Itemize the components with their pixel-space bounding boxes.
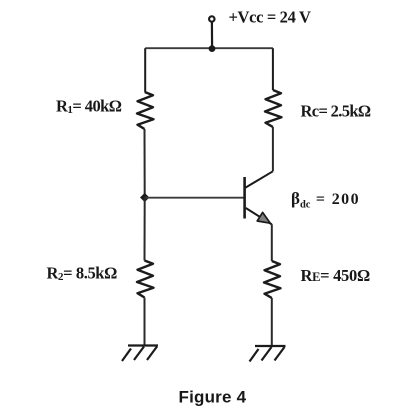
label +Vcc = 24 V: [229, 8, 311, 27]
transistor Q1 emitter arrow: [257, 212, 270, 223]
wire R2 to ground: [144, 298, 146, 346]
resistor Rc: [265, 90, 282, 127]
transistor Q1 base bar: [243, 177, 246, 219]
wire R1 to base node: [144, 129, 146, 198]
label RE= 450Ohm: [301, 266, 370, 285]
wire Rc to collector: [272, 127, 274, 171]
ground left: [122, 346, 158, 362]
svg-text:Rc= 2.5kΩ: Rc= 2.5kΩ: [301, 102, 371, 121]
label Figure 4: [179, 388, 247, 407]
svg-text:Figure 4: Figure 4: [179, 388, 247, 407]
label Rc= 2.5kOhm: [301, 102, 371, 121]
wire rail left corner down to R1: [144, 48, 146, 92]
node +Vcc terminal: [209, 16, 214, 21]
wire Vcc terminal to rail: [211, 22, 213, 48]
wire RE to ground: [271, 298, 273, 346]
resistor RE: [264, 261, 281, 298]
svg-text:RE= 450Ω: RE= 450Ω: [301, 266, 370, 285]
wire rail right corner down to Rc: [272, 48, 274, 90]
svg-text:R1= 40kΩ: R1= 40kΩ: [56, 97, 122, 117]
resistor R2: [137, 261, 154, 298]
label R1= 40kOhm: [56, 97, 122, 117]
wire emitter down to RE: [271, 224, 273, 261]
transistor Q1 emitter lead: [246, 208, 272, 224]
svg-text:+Vcc = 24 V: +Vcc = 24 V: [229, 8, 311, 27]
label beta dc = 200: [291, 189, 360, 211]
ground right: [250, 346, 286, 362]
svg-text:βdc = 200: βdc = 200: [291, 189, 360, 211]
wire top rail: [145, 47, 273, 49]
label R2= 8.5kOhm: [47, 264, 118, 284]
transistor Q1 collector lead: [246, 171, 273, 187]
node base junction dot: [140, 193, 149, 202]
svg-text:R2= 8.5kΩ: R2= 8.5kΩ: [47, 264, 118, 284]
node junction dot on rail: [209, 45, 216, 52]
wire base node to transistor base: [145, 197, 244, 199]
resistor R1: [137, 92, 154, 129]
wire base node down to R2: [144, 198, 146, 261]
